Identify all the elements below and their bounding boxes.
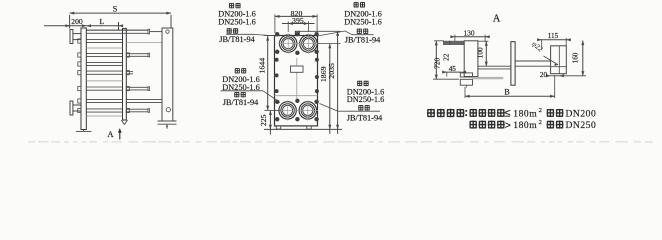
extension line left for S [69, 15, 71, 29]
carrying bar stub to foot pad [515, 60, 551, 62]
extension line right nozzle center [318, 43, 341, 45]
820 extension lines [274, 14, 276, 33]
nozzle top-right circles [300, 35, 317, 52]
svg-text:JB/T81-94: JB/T81-94 [223, 98, 259, 107]
svg-text:1644: 1644 [257, 58, 266, 74]
leader line for cold-out flange [352, 34, 374, 36]
svg-text:JB/T81-94: JB/T81-94 [345, 36, 381, 45]
nozzle bottom-left circles [279, 102, 296, 119]
dimension 225 [269, 110, 271, 134]
svg-text:2035: 2035 [327, 63, 336, 79]
dimension B bottom [465, 95, 555, 97]
tie bolt row 4 [86, 70, 122, 72]
top bracket bar hatched [443, 41, 464, 45]
frame plate edge view [511, 42, 515, 85]
tie bolt row 3 [86, 61, 122, 63]
svg-text:DN250-1.6: DN250-1.6 [218, 17, 256, 26]
svg-text:130: 130 [463, 28, 474, 37]
nozzle top-left circles [280, 35, 297, 52]
movable plate guide shoe [121, 120, 124, 125]
svg-text:720: 720 [433, 57, 442, 68]
dimension 820 [275, 15, 317, 17]
dimension 22 [449, 41, 451, 45]
svg-text:160: 160 [571, 52, 579, 63]
base bar [473, 77, 504, 79]
plate centerline seam [296, 58, 298, 101]
right foot of plate [307, 126, 311, 129]
tie bolt row 2 [86, 52, 122, 54]
svg-text:395: 395 [292, 16, 304, 25]
extension line right for S [170, 15, 172, 28]
svg-text:180m: 180m [513, 108, 537, 119]
faint cropped text row at bottom [28, 141, 35, 142]
svg-text:A: A [493, 13, 501, 24]
svg-text:JB/T81-94: JB/T81-94 [219, 35, 255, 44]
extension line plate top to 1644 [264, 35, 275, 37]
plate pack intermediate lines [86, 47, 122, 49]
support column [162, 28, 173, 121]
dimension 395 [282, 23, 315, 25]
carrying bar from column to plate [478, 65, 511, 67]
svg-text:L: L [99, 17, 104, 26]
carrying bar top [86, 29, 148, 31]
dimension 1869 [329, 44, 331, 134]
plate front view body [275, 36, 318, 126]
foot pad square [551, 46, 567, 74]
nameplate [291, 66, 304, 72]
dimension 1644 [267, 36, 269, 110]
foot lower pad [460, 79, 472, 85]
foot upper pad [460, 73, 472, 77]
svg-text:45: 45 [449, 65, 457, 73]
label hot-in (re jin) top-left [229, 3, 234, 9]
nozzle bottom-right circles [299, 102, 316, 119]
svg-text:A: A [107, 129, 114, 139]
bolt holes mid rows [275, 58, 279, 62]
label cold-in bottom-right [357, 81, 362, 87]
left foot of plate [276, 126, 280, 129]
slot leader and phi22 label [544, 56, 559, 65]
svg-text:225: 225 [259, 114, 268, 126]
dimension 130 [451, 36, 490, 38]
dimension S (top, left view) [70, 12, 171, 14]
carrying bar pin circle at column [166, 30, 169, 33]
svg-text:200: 200 [71, 17, 83, 26]
bottom nozzle flange (left view) [70, 101, 73, 115]
svg-text:2: 2 [539, 107, 542, 114]
extension line for L end [118, 22, 120, 30]
dimension 45 [444, 71, 462, 73]
extension line bottom nozzle center [265, 109, 281, 111]
svg-text:115: 115 [548, 32, 559, 40]
fixed frame plate [81, 28, 86, 130]
svg-text:DN250-1.6: DN250-1.6 [347, 95, 385, 104]
fixed plate base foot [76, 130, 92, 132]
svg-text:DN250-1.6: DN250-1.6 [344, 17, 382, 26]
note interface flange text [427, 109, 435, 117]
svg-text:100: 100 [476, 47, 484, 58]
tie bolt row 5 [86, 86, 122, 88]
support column foot [158, 120, 177, 122]
dimension 115 [538, 39, 570, 41]
gasket line across plate [275, 95, 318, 97]
svg-text:DN200: DN200 [566, 108, 597, 119]
tie bolt row 7 [86, 108, 122, 110]
top nozzle flange (left view) [70, 30, 73, 44]
bolt holes bottom rows [275, 100, 279, 104]
svg-text:DN250: DN250 [566, 120, 597, 131]
dimension 100 [485, 41, 487, 66]
tie bolt row 6 [86, 98, 122, 100]
note line 1 [469, 109, 477, 117]
extension line tab top [299, 30, 340, 32]
support column detail circle [166, 108, 170, 112]
label hot-out bottom-left [235, 68, 240, 74]
svg-text:≤: ≤ [504, 108, 510, 120]
svg-text:B: B [504, 88, 509, 97]
bolt holes top row [275, 32, 279, 36]
leader line for cold-in flange [348, 110, 380, 112]
upper guide line [126, 42, 162, 44]
tie bolt row 1 [86, 38, 122, 40]
dimension 200 and L line [44, 25, 122, 27]
svg-text:22: 22 [443, 53, 451, 61]
leader line for hot-out flange [221, 90, 264, 92]
dimension 160 [582, 41, 584, 76]
svg-text:JB/T81-94: JB/T81-94 [347, 114, 383, 123]
svg-text:S: S [113, 5, 118, 14]
leader line for hot-in flange [226, 33, 252, 35]
svg-text:20: 20 [540, 71, 548, 79]
movable frame plate [123, 28, 127, 120]
svg-text:2: 2 [539, 119, 542, 126]
baseline under plate [264, 128, 342, 130]
dimension 720 [435, 41, 437, 79]
dimension 20 [546, 74, 551, 77]
carrying bar tab on top [295, 31, 299, 35]
svg-text:180m: 180m [513, 120, 537, 131]
column channel in A view [464, 41, 478, 77]
dimension 2035 [337, 31, 339, 134]
note line 2 [469, 121, 477, 129]
label cold-out top-right [353, 2, 358, 8]
svg-text:>: > [505, 119, 511, 131]
